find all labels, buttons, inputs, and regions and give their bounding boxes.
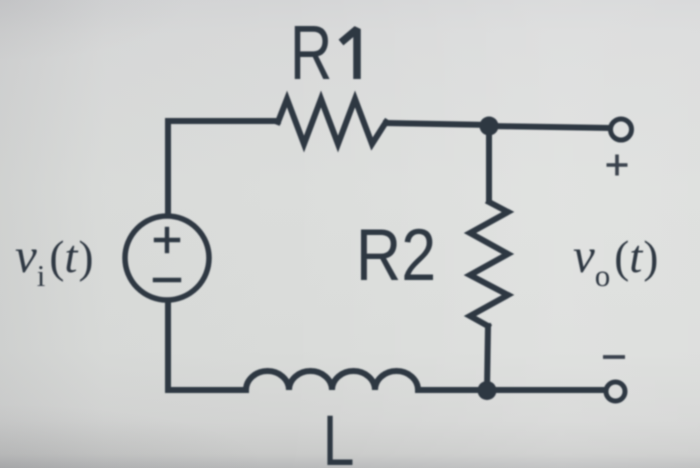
label vi(t) — [15, 228, 93, 293]
label vo(t) — [573, 228, 658, 293]
wire node A down to R2 — [486, 125, 492, 201]
wire top-left segment — [168, 121, 278, 214]
label L — [323, 401, 355, 468]
node A (junction dot, top) — [480, 117, 499, 136]
svg-text:vi(t): vi(t) — [15, 228, 93, 293]
node B (junction dot, bottom) — [478, 381, 497, 400]
wire inductor to node B — [418, 387, 487, 393]
svg-text:vo(t): vo(t) — [573, 228, 658, 293]
+ sign inside source — [156, 229, 178, 251]
resistor R2 (vertical zigzag) — [470, 202, 508, 326]
voltage source U1 vi(t) — [125, 216, 209, 300]
wire node A to output + terminal — [489, 126, 608, 128]
label R2 — [356, 215, 436, 296]
label + (output polarity) — [607, 155, 628, 176]
svg-text:R: R — [290, 10, 332, 96]
- sign inside source — [155, 278, 179, 282]
output terminal + (open circle) — [611, 119, 632, 140]
label - (output polarity) — [603, 355, 625, 359]
wire source bottom to bottom-left corner — [168, 303, 246, 390]
inductor L (4 arcs) — [246, 371, 418, 390]
wire R2 down to node B — [487, 326, 488, 390]
svg-text:R2: R2 — [356, 215, 436, 296]
wire node B to output - terminal — [487, 387, 603, 393]
wire R1 to node A — [386, 123, 489, 125]
label R1 — [290, 10, 357, 96]
output terminal - (open circle) — [606, 382, 625, 401]
svg-text:L: L — [323, 401, 355, 468]
resistor R1 — [278, 99, 386, 144]
